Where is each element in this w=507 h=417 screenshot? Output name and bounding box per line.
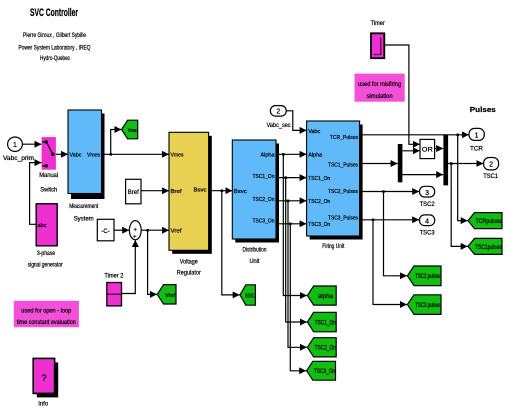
annotation used for open-loop [14, 301, 79, 327]
svg-text:TSC1pulses: TSC1pulses [475, 245, 502, 251]
wire TSC3_Pulses to outport 4 [360, 219, 420, 222]
outport 1 TCR [469, 128, 484, 152]
wire TSC1_On to firing unit [276, 176, 307, 179]
svg-text:Vabc: Vabc [70, 153, 82, 159]
logical operator OR [420, 139, 435, 158]
svg-text:TSC2: TSC2 [420, 202, 436, 208]
sum block [129, 221, 141, 241]
wire branch to TSC2_On goto tag [288, 201, 307, 347]
svg-text:abc: abc [38, 223, 47, 229]
svg-text:Alpha: Alpha [308, 153, 323, 159]
wire Timer to OR input 1 [384, 45, 420, 144]
svg-text:TSC1_On: TSC1_On [253, 174, 275, 180]
wire branch to TSC3pulses goto tag [373, 220, 407, 305]
svg-text:Pierre Giroux , Gilbert Sybill: Pierre Giroux , Gilbert Sybille [23, 32, 86, 39]
svg-text:Vref: Vref [171, 228, 183, 234]
svg-text:Manual: Manual [39, 173, 58, 179]
svg-text:Vmeas: Vmeas [128, 128, 138, 134]
svg-text:TSC2_Pulses: TSC2_Pulses [328, 189, 358, 195]
3-phase signal generator [28, 204, 63, 269]
svg-text:3: 3 [425, 190, 429, 197]
svg-text:Distribution: Distribution [243, 248, 267, 254]
svg-text:Vabc_sec: Vabc_sec [267, 123, 291, 129]
wire branch to alpha goto tag [283, 154, 307, 295]
wire Timer2 to sum bottom [122, 240, 136, 294]
svg-text:Bref: Bref [128, 190, 139, 196]
svg-text:time constant evaluation: time constant evaluation [17, 320, 76, 326]
wire branch to TSC1_On goto tag [286, 178, 307, 322]
svg-text:1: 1 [13, 142, 17, 149]
constant Bref [126, 179, 141, 204]
svg-text:TSC3_On: TSC3_On [253, 219, 275, 225]
goto tag TSC1pulses [468, 238, 502, 254]
svg-text:1: 1 [475, 132, 479, 139]
wire TSC3_On to firing unit [276, 223, 307, 226]
wire Alpha to firing unit [276, 153, 307, 156]
outport 3 TSC2 [420, 186, 436, 208]
goto tag Vref [157, 285, 176, 304]
svg-text:Vmes: Vmes [171, 153, 184, 159]
manual switch MS [39, 137, 58, 193]
svg-text:used for open - loop: used for open - loop [21, 309, 72, 315]
wire branch to BSVC goto tag [222, 191, 240, 295]
svg-text:3-phase: 3-phase [37, 251, 56, 257]
wire Vmes to voltage regulator [102, 153, 170, 156]
svg-text:TSC3: TSC3 [420, 231, 436, 237]
goto tag TSC3pulses [407, 295, 441, 315]
goto tag TCRpulses [468, 213, 502, 229]
svg-text:Vabc_prim: Vabc_prim [3, 156, 34, 162]
svg-text:Power System Laboratory , IREQ: Power System Laboratory , IREQ [19, 45, 91, 52]
svg-text:signal generator: signal generator [28, 263, 63, 269]
svg-text:TCRpulses: TCRpulses [476, 219, 502, 225]
wire TSC1_Pulses to demux [360, 163, 398, 165]
svg-text:2: 2 [276, 109, 280, 116]
svg-text:Hydro-Quebec: Hydro-Quebec [40, 55, 71, 62]
constant -C- [97, 219, 114, 241]
svg-text:Pulses: Pulses [470, 107, 496, 114]
distribution unit block [232, 140, 279, 265]
svg-text:Vabc: Vabc [308, 129, 320, 135]
svg-text:Vref: Vref [165, 293, 175, 299]
svg-text:+: + [134, 228, 138, 234]
svg-text:?: ? [41, 373, 46, 383]
wire manual switch to measurement system [56, 153, 68, 155]
svg-text:Alpha: Alpha [261, 152, 276, 158]
wire branch to Vmeas goto tag [111, 130, 122, 155]
svg-text:TSC3 pulses: TSC3 pulses [415, 303, 440, 309]
svg-text:TSC1_On: TSC1_On [308, 176, 330, 182]
svg-text:2: 2 [489, 162, 493, 169]
wire 3-phase generator to manual switch lower input [30, 163, 42, 225]
svg-text:Firing Unit: Firing Unit [322, 244, 344, 250]
svg-text:Vmes: Vmes [87, 153, 100, 159]
svg-text:Measurement: Measurement [69, 204, 98, 210]
annotation author line 2 [19, 45, 91, 52]
wire Bsvc to distribution unit [209, 190, 233, 193]
svg-text:Voltage: Voltage [180, 260, 199, 266]
wire demux to OR input 2 [402, 150, 419, 152]
wire branch to TCRpulses goto tag [458, 135, 468, 221]
svg-text:TSC3_On: TSC3_On [314, 369, 335, 375]
wire demux to mux lower [402, 174, 443, 176]
svg-text:TCR_Pulses: TCR_Pulses [330, 135, 358, 141]
svg-text:TSC2_On: TSC2_On [315, 346, 336, 352]
svg-text:TSC2 pulses: TSC2 pulses [415, 274, 440, 280]
goto tag TSC1_On [307, 312, 336, 331]
svg-text:Regulator: Regulator [177, 271, 201, 277]
outport 2 TSC1 [483, 158, 499, 180]
wire OR to mux [435, 148, 444, 150]
goto tag TSC3_On [307, 361, 336, 380]
goto tag alpha [307, 286, 336, 305]
svg-text:-C-: -C- [101, 229, 109, 235]
wire branch to TSC1pulses goto tag [451, 164, 468, 247]
voltage regulator block [169, 132, 212, 276]
svg-text:TSC1_Pulses: TSC1_Pulses [328, 162, 358, 168]
outport 4 TSC3 [420, 215, 436, 237]
Timer block [371, 21, 385, 58]
svg-text:BSVC: BSVC [246, 293, 255, 299]
title SVC Controller [30, 7, 78, 19]
svg-text:TSC1_On: TSC1_On [315, 320, 336, 326]
mux bar2 [443, 135, 448, 186]
svg-text:SVC Controller: SVC Controller [30, 7, 78, 19]
goto tag BSVC [240, 285, 255, 305]
svg-text:Timer 2: Timer 2 [104, 274, 124, 280]
svg-text:4: 4 [425, 219, 429, 226]
svg-text:Unit: Unit [250, 259, 260, 265]
annotation author line 3 [40, 55, 71, 62]
wire TCR_Pulses to outport 1 [360, 134, 469, 137]
svg-text:TSC1: TSC1 [483, 174, 499, 180]
svg-text:TCR: TCR [470, 147, 484, 153]
goto tag TSC2pulses [407, 266, 441, 286]
measurement system block [68, 110, 105, 223]
svg-text:Switch: Switch [40, 188, 57, 194]
inport 2 Vabc_sec [267, 106, 291, 129]
inport 1 Vabc_prim [3, 137, 34, 162]
info block [33, 358, 58, 407]
goto tag TSC2_On [307, 338, 336, 357]
svg-text:TSC3_Pulses: TSC3_Pulses [328, 216, 358, 222]
svg-text:Info: Info [38, 402, 49, 408]
annotation used for misfiring simulation [355, 74, 405, 102]
demux bar1 [398, 144, 403, 182]
svg-text:Bref: Bref [171, 189, 183, 195]
svg-text:used for misfiring: used for misfiring [358, 82, 401, 88]
svg-text:alpha: alpha [318, 294, 334, 300]
wire -C- to sum [114, 229, 129, 231]
svg-text:simulation: simulation [367, 94, 393, 100]
label Pulses [470, 107, 496, 114]
svg-text:TSC3_On: TSC3_On [308, 222, 330, 228]
svg-text:TSC2_On: TSC2_On [308, 199, 330, 205]
svg-text:TSC2_On: TSC2_On [253, 197, 275, 203]
wire mux to outport 2 [448, 162, 483, 165]
svg-text:System: System [74, 217, 94, 223]
svg-text:+: + [133, 235, 137, 241]
wire inport 2 to firing unit Vabc [286, 111, 306, 131]
svg-text:Bsvc: Bsvc [234, 189, 247, 195]
wire TSC2_Pulses to outport 3 [360, 190, 420, 193]
svg-text:Bsvc: Bsvc [194, 187, 207, 193]
svg-text:Timer: Timer [371, 21, 385, 27]
goto tag Vmeas [122, 120, 138, 139]
Timer2 block [104, 274, 124, 306]
wire inport1 to manual switch [22, 143, 41, 145]
firing unit block [307, 121, 363, 250]
svg-text:OR: OR [422, 147, 433, 154]
wire branch to Vref goto tag [148, 230, 157, 294]
wire branch to TSC3_On goto tag [290, 224, 306, 371]
wire TSC2_On to firing unit [276, 200, 307, 203]
wire branch to TSC2pulses goto tag [384, 192, 408, 276]
annotation author line 1 [23, 32, 86, 39]
wire sum to voltage regulator Vref [141, 229, 169, 232]
wire Bref to voltage regulator [141, 190, 169, 192]
